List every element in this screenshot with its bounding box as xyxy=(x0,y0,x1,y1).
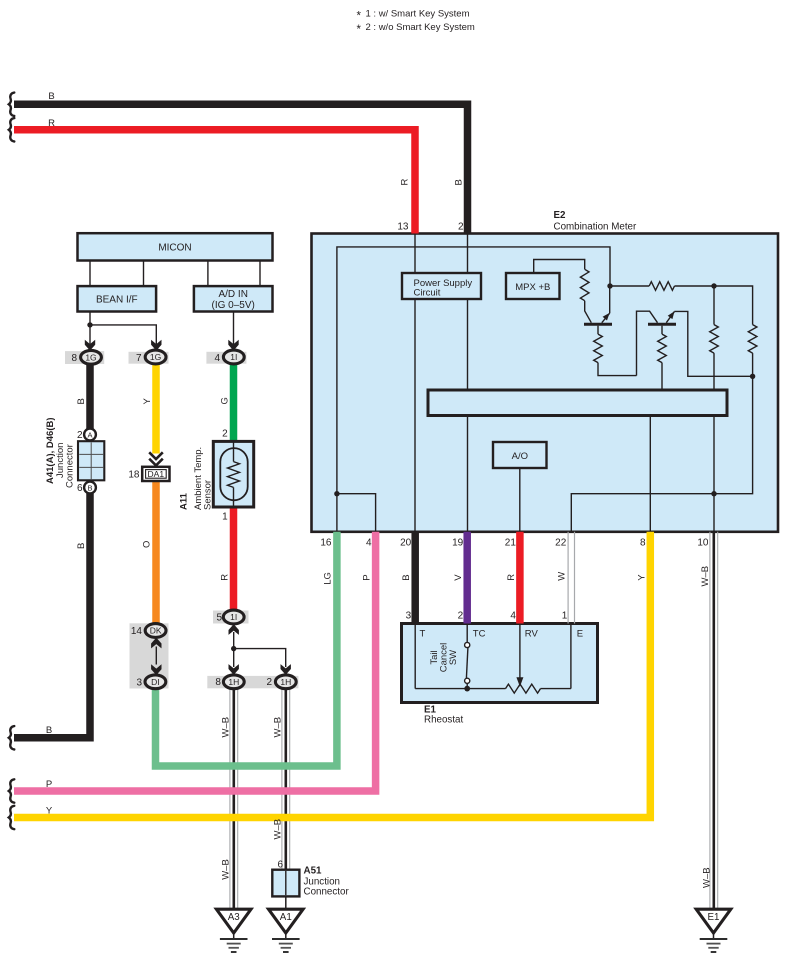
svg-text:2: 2 xyxy=(458,222,464,233)
svg-text:R: R xyxy=(220,574,231,581)
svg-text:1 : w/ Smart Key System: 1 : w/ Smart Key System xyxy=(366,9,470,20)
svg-text:R: R xyxy=(400,179,411,186)
svg-text:A3: A3 xyxy=(228,912,241,923)
svg-text:Connector: Connector xyxy=(65,444,76,488)
svg-text:4: 4 xyxy=(510,611,516,622)
svg-text:B: B xyxy=(401,574,412,580)
svg-text:6: 6 xyxy=(277,860,283,871)
svg-text:MICON: MICON xyxy=(158,243,191,254)
svg-text:A/D IN: A/D IN xyxy=(218,289,247,300)
svg-text:2: 2 xyxy=(458,611,464,622)
svg-text:1I: 1I xyxy=(230,612,237,622)
svg-text:22: 22 xyxy=(555,538,567,549)
svg-text:W–B: W–B xyxy=(221,717,232,738)
svg-text:1I: 1I xyxy=(230,352,237,362)
svg-text:W–B: W–B xyxy=(273,717,284,738)
svg-text:6: 6 xyxy=(77,483,83,494)
svg-text:MPX +B: MPX +B xyxy=(515,282,550,293)
svg-text:8: 8 xyxy=(640,538,646,549)
svg-text:Rheostat: Rheostat xyxy=(424,715,463,726)
svg-text:E1: E1 xyxy=(708,912,720,923)
svg-text:5: 5 xyxy=(216,613,222,624)
svg-text:DA1: DA1 xyxy=(148,469,165,479)
svg-text:B: B xyxy=(76,398,87,404)
svg-text:Y: Y xyxy=(142,398,153,405)
svg-text:1G: 1G xyxy=(85,352,96,362)
svg-text:E: E xyxy=(577,629,583,640)
svg-text:20: 20 xyxy=(400,538,412,549)
svg-text:8: 8 xyxy=(215,677,221,688)
svg-text:19: 19 xyxy=(452,538,464,549)
svg-text:Sensor: Sensor xyxy=(203,480,214,510)
svg-text:B: B xyxy=(76,543,87,549)
svg-text:(IG 0–5V): (IG 0–5V) xyxy=(212,300,255,311)
svg-text:4: 4 xyxy=(214,353,220,364)
svg-text:P: P xyxy=(46,779,52,790)
svg-text:W–B: W–B xyxy=(702,867,713,888)
svg-text:7: 7 xyxy=(136,353,142,364)
svg-text:W–B: W–B xyxy=(700,566,711,587)
svg-text:1H: 1H xyxy=(280,677,291,687)
svg-text:O: O xyxy=(142,541,153,548)
svg-text:V: V xyxy=(453,574,464,581)
svg-text:*: * xyxy=(357,11,362,23)
svg-text:P: P xyxy=(362,574,373,580)
svg-text:B: B xyxy=(87,484,92,493)
svg-text:13: 13 xyxy=(397,222,409,233)
svg-text:BEAN I/F: BEAN I/F xyxy=(96,295,138,306)
svg-text:Circuit: Circuit xyxy=(414,287,441,298)
svg-text:2: 2 xyxy=(77,430,83,441)
svg-text:14: 14 xyxy=(131,626,143,637)
svg-text:B: B xyxy=(454,179,465,185)
svg-text:A/O: A/O xyxy=(512,451,528,462)
svg-text:B: B xyxy=(46,725,52,736)
svg-text:A11: A11 xyxy=(179,492,190,510)
svg-text:R: R xyxy=(506,574,517,581)
svg-text:A51: A51 xyxy=(304,866,323,877)
svg-text:A: A xyxy=(87,431,92,440)
svg-text:DK: DK xyxy=(150,626,162,636)
svg-text:10: 10 xyxy=(697,538,709,549)
svg-text:8: 8 xyxy=(71,353,77,364)
svg-text:21: 21 xyxy=(505,538,517,549)
svg-text:W–B: W–B xyxy=(273,819,284,840)
svg-text:E2: E2 xyxy=(554,210,567,221)
svg-text:Connector: Connector xyxy=(304,887,350,898)
svg-text:W: W xyxy=(557,572,568,581)
svg-text:16: 16 xyxy=(320,538,332,549)
svg-text:RV: RV xyxy=(525,629,539,640)
svg-text:R: R xyxy=(48,118,55,129)
svg-text:TC: TC xyxy=(473,629,486,640)
svg-text:*: * xyxy=(357,24,362,36)
svg-text:3: 3 xyxy=(406,611,412,622)
svg-text:A1: A1 xyxy=(280,912,292,923)
svg-text:4: 4 xyxy=(366,538,372,549)
svg-text:T: T xyxy=(420,629,426,640)
svg-text:LG: LG xyxy=(323,572,334,585)
svg-text:2 : w/o Smart Key System: 2 : w/o Smart Key System xyxy=(366,22,475,33)
svg-text:2: 2 xyxy=(267,677,273,688)
svg-text:1H: 1H xyxy=(228,677,239,687)
svg-text:G: G xyxy=(220,397,231,404)
svg-text:Y: Y xyxy=(636,574,647,581)
svg-text:Y: Y xyxy=(46,806,53,817)
svg-text:DI: DI xyxy=(151,677,160,687)
svg-text:3: 3 xyxy=(136,678,142,689)
svg-text:1: 1 xyxy=(222,512,228,523)
svg-text:2: 2 xyxy=(222,429,228,440)
svg-text:B: B xyxy=(48,91,54,102)
svg-text:1G: 1G xyxy=(150,352,161,362)
svg-text:18: 18 xyxy=(128,470,140,481)
svg-text:SW: SW xyxy=(448,650,459,665)
svg-text:1: 1 xyxy=(562,611,568,622)
svg-text:W–B: W–B xyxy=(221,859,232,880)
svg-text:Combination Meter: Combination Meter xyxy=(554,222,638,233)
